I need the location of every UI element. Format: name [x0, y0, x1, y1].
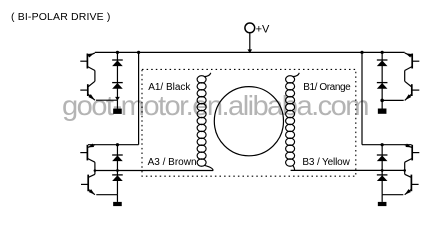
inductor coil phase B	[286, 76, 295, 83]
terminal pad left upper	[113, 109, 122, 114]
junction node right upper	[380, 99, 384, 103]
diode column upper left	[116, 52, 118, 100]
wire A3 line	[95, 170, 213, 172]
svg-text:B3 / Yellow: B3 / Yellow	[302, 157, 350, 168]
diode D7	[377, 154, 388, 156]
wire Q2 emitter node	[96, 99, 118, 101]
transistor Q7	[411, 145, 413, 161]
diode column lower left	[116, 145, 118, 195]
motor outline dashed box	[142, 69, 356, 176]
transistor Q8	[410, 175, 412, 192]
junction rail-right drop	[360, 51, 363, 54]
diode D5	[377, 59, 388, 61]
svg-text:( BI-POLAR DRIVE ): ( BI-POLAR DRIVE )	[11, 11, 111, 23]
junction A3-midline	[94, 169, 97, 172]
diode D4	[112, 174, 123, 176]
wire Q6 emitter node	[382, 99, 404, 101]
svg-text:B1/ Orange: B1/ Orange	[303, 82, 351, 93]
transistor Q1	[86, 54, 88, 69]
diode D6	[377, 82, 388, 84]
diode D2	[112, 82, 123, 84]
inductor coil phase A	[197, 76, 206, 83]
terminal pad left lower	[113, 202, 122, 206]
diode D8	[377, 174, 388, 176]
diode column upper right	[381, 52, 383, 100]
+V terminal circle	[245, 23, 255, 33]
wire +V top rail	[95, 51, 405, 53]
wire right branch vertical	[361, 52, 363, 144]
junction rail-left diode column	[116, 51, 119, 54]
stub to pad left upper	[116, 100, 118, 109]
diode column lower right	[381, 145, 383, 195]
svg-text:A1/ Black: A1/ Black	[148, 82, 191, 93]
junction lower rail-column right	[381, 143, 384, 146]
wire left lower rail	[88, 144, 139, 146]
wire Q4 emitter node	[96, 194, 117, 196]
diode D3	[112, 154, 123, 156]
junction rail-left drop	[137, 51, 140, 54]
stub to pad right upper	[381, 100, 383, 108]
wire Q1-Q2 midline	[94, 71, 96, 82]
motor rotor circle	[214, 87, 283, 156]
stub to pad left lower	[116, 195, 118, 202]
stub to pad right lower	[381, 195, 383, 202]
terminal pad right lower	[378, 202, 387, 206]
wire left branch vertical	[138, 52, 140, 144]
junction B3-column right	[381, 169, 384, 172]
wire Q3-Q4 midline	[94, 162, 96, 174]
node arrow left upper	[115, 97, 120, 101]
junction lower rail-column left	[116, 143, 119, 146]
transistor Q3	[86, 145, 88, 161]
wire Q7-Q8 midline	[404, 162, 406, 174]
junction A3-column left	[116, 169, 119, 172]
terminal pad right upper	[378, 109, 387, 114]
wire +V drop	[249, 33, 251, 53]
transistor Q2	[87, 84, 89, 96]
junction B3-midline	[403, 169, 406, 172]
wire right lower rail	[362, 144, 412, 146]
junction rail-right diode column	[381, 51, 384, 54]
transistor Q4	[87, 175, 89, 192]
wire Q8 emitter node	[382, 194, 403, 196]
svg-text:+V: +V	[256, 23, 270, 35]
wire Q5-Q6 midline	[404, 71, 406, 82]
junction arrow at +V rail	[248, 49, 253, 53]
wire B3 line	[291, 169, 405, 171]
diode D1	[112, 59, 123, 61]
transistor Q5	[411, 54, 413, 69]
transistor Q6	[411, 84, 413, 96]
svg-text:A3 / Brown: A3 / Brown	[148, 157, 197, 168]
